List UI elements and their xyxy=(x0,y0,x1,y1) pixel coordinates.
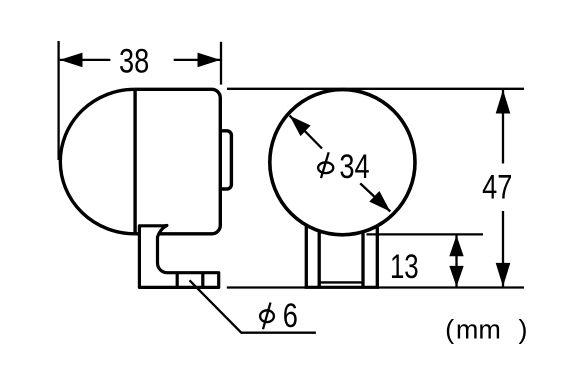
connector tab on rear of body xyxy=(220,131,232,189)
phi6: phi symbol xyxy=(260,303,274,330)
svg-text:38: 38 xyxy=(119,42,149,81)
mounting bracket (side view, L-shaped strap) xyxy=(139,226,218,288)
svg-text:(: ( xyxy=(445,315,454,345)
seam line between dome and body xyxy=(133,89,136,234)
bracket leg inner-left xyxy=(318,224,321,287)
bolt hole in bracket base (side view) right edge xyxy=(201,273,204,288)
dimension 38: left shaft xyxy=(60,59,111,61)
svg-text:mm: mm xyxy=(456,315,501,345)
svg-text:34: 34 xyxy=(339,147,369,186)
dimension 47: top arrowhead xyxy=(496,90,511,114)
dimension 38: right extension line xyxy=(220,42,222,85)
bracket legs (front view) outer-left xyxy=(305,220,308,287)
dimension 47: bottom arrowhead xyxy=(496,263,511,287)
dome (side view front lens) xyxy=(60,89,135,234)
leader line for phi6 hole xyxy=(190,280,316,332)
svg-text:): ) xyxy=(519,315,528,345)
dimension 38: right shaft xyxy=(174,59,221,61)
bracket base bottom edge (front view) xyxy=(305,286,379,289)
body outline (side view) xyxy=(135,89,221,234)
lamp body silhouette (white fill, side view) xyxy=(60,89,220,234)
dimension 47: upper shaft xyxy=(502,90,504,164)
bracket base fold line (front view) xyxy=(319,281,363,283)
svg-text:6: 6 xyxy=(283,296,298,335)
dimension: 13 top extension line xyxy=(367,233,484,235)
dimension: bottom extension line (47/13) xyxy=(227,286,524,288)
dimension 47: lower shaft xyxy=(502,211,504,287)
dimension 38: right arrowhead xyxy=(198,53,221,68)
dimension 13: down arrowhead xyxy=(449,266,463,287)
dimension 13: vertical line xyxy=(455,235,457,286)
dimension phi34: upper-left arrowhead xyxy=(290,116,311,137)
dimension 13: up arrowhead xyxy=(449,235,463,256)
dimension phi34: lower shaft xyxy=(360,183,390,211)
bracket leg outer-right xyxy=(376,220,379,287)
svg-text:13: 13 xyxy=(390,249,419,286)
bracket leg inner-right xyxy=(361,224,364,287)
dimension phi34: phi symbol xyxy=(318,152,333,178)
dimension phi34: upper shaft xyxy=(290,116,322,149)
dimension 38: left arrowhead xyxy=(60,53,83,68)
dimension phi34: lower-right arrowhead xyxy=(369,191,390,212)
svg-text:47: 47 xyxy=(482,168,512,207)
bolt hole in bracket base (side view) left edge xyxy=(176,273,179,288)
dimension 38: left extension line xyxy=(57,41,59,160)
dimension: top extension line (47) xyxy=(227,88,524,90)
lamp circle (front view) xyxy=(270,90,415,235)
